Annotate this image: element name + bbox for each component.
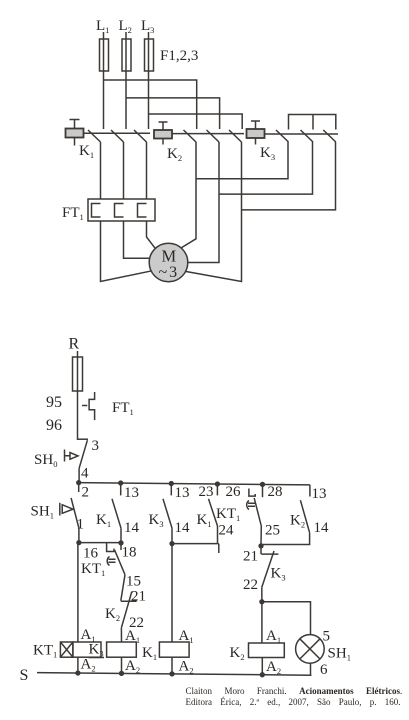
KT1 coil X diagonals: [60, 642, 73, 657]
control bus: [79, 483, 310, 485]
node dot 25 junction: [259, 544, 263, 548]
wire FT1 out1 to motor: [101, 221, 153, 282]
node dot K3 coil rail: [120, 672, 124, 676]
K2 linkage line: [172, 133, 244, 135]
svg-text:96: 96: [46, 417, 62, 434]
wire L1 drop: [103, 32, 105, 129]
SH1 actuator bar: [59, 503, 61, 516]
fuse F2: [122, 39, 131, 71]
svg-text:13: 13: [175, 485, 190, 501]
wire K1 pole3 out: [146, 142, 148, 200]
svg-text:A1: A1: [266, 628, 281, 645]
K3 coil label underline: [89, 657, 105, 659]
SH0 actuator arrow: [65, 453, 79, 460]
K1 contact pole1 blade: [88, 130, 101, 142]
K3 NC blade: [262, 551, 274, 587]
K2 coil box: [249, 643, 285, 658]
node dot K2 rail: [260, 673, 264, 677]
fuse F1: [100, 39, 109, 71]
FT1 NC contact squiggle: [89, 392, 95, 420]
svg-text:25: 25: [265, 523, 280, 539]
wire crossover H1 to K3 pole1: [196, 142, 288, 179]
wire crossover H3 to K3 pole3: [242, 142, 336, 210]
contactor K3 coil box: [247, 129, 265, 138]
K1 aux 23-24 blade: [209, 499, 218, 526]
K1 aux 23-24 stub: [216, 484, 218, 495]
wire FT1 out2 to motor: [124, 221, 154, 258]
bottom rail S: [37, 673, 311, 676]
svg-text:A2: A2: [125, 658, 140, 675]
svg-text:14: 14: [175, 520, 191, 536]
K1 aux 13-14 stub: [120, 483, 122, 495]
node dot SH1-K1aux left: [77, 541, 81, 545]
svg-text:15: 15: [126, 574, 141, 590]
K3 aux 13-14 stub: [170, 484, 172, 496]
node dot lamp junction: [260, 600, 264, 604]
svg-text:K2: K2: [105, 606, 120, 623]
svg-text:22: 22: [243, 577, 258, 593]
K3 contact pole1 blade: [276, 130, 289, 142]
KT1 coil X box: [60, 642, 73, 657]
K2 aux 13-14 drop: [309, 485, 311, 497]
svg-text:M: M: [162, 247, 177, 266]
wire junction to K2 coil: [261, 602, 263, 643]
svg-text:A1: A1: [81, 627, 96, 644]
fuse R: [73, 357, 83, 391]
wire L2 drop: [125, 32, 127, 129]
FT1 actuator dash: [82, 405, 87, 407]
KT1 coil box: [73, 642, 101, 657]
svg-text:28: 28: [268, 484, 283, 500]
thermal relay FT1 box: [88, 199, 155, 221]
K1 coil box: [159, 642, 189, 657]
svg-text:16: 16: [83, 546, 99, 562]
wire left drop to KT1 coil: [77, 543, 79, 642]
wire K2 pole3 out under motor: [181, 142, 242, 282]
wire FT1 out3 to motor: [147, 221, 158, 251]
SH1 stub: [78, 483, 80, 492]
svg-text:Claiton Moro Franchi. Acioname: Claiton Moro Franchi. Acionamentos Elétr…: [186, 686, 403, 696]
svg-text:KT1: KT1: [33, 643, 57, 660]
contactor K1 coil box: [66, 129, 84, 138]
K3 linkage line: [265, 133, 339, 135]
wire KT1 coil to rail: [77, 657, 79, 673]
K1 aux 13-14 blade: [112, 499, 121, 528]
svg-text:14: 14: [124, 520, 140, 536]
svg-text:R: R: [69, 336, 80, 353]
node dot B4: [216, 482, 220, 486]
node dot K1 rail: [170, 672, 174, 676]
K2 plunger: [159, 122, 168, 145]
svg-text:4: 4: [81, 466, 89, 482]
KT1 25 delay symbol: [247, 501, 255, 510]
wire K1 aux down: [120, 528, 122, 543]
svg-text:21: 21: [131, 589, 146, 605]
svg-text:K1: K1: [79, 143, 94, 160]
pushbutton SH1 blade: [71, 498, 79, 528]
KT1 timed blade: [115, 550, 125, 575]
svg-text:L2: L2: [119, 18, 132, 35]
SH1 actuator arrow: [62, 505, 73, 514]
svg-text:K2: K2: [290, 513, 305, 530]
FT1 heater element 3: [138, 204, 147, 218]
K2 aux 13-14 blade: [300, 500, 309, 532]
K3 aux 13-14 blade: [163, 499, 172, 528]
svg-text:23: 23: [199, 484, 214, 500]
svg-text:A2: A2: [179, 659, 194, 676]
svg-text:SH1: SH1: [31, 504, 54, 521]
FT1 heater element 1: [92, 204, 101, 218]
wire K3 coil to rail: [121, 657, 123, 673]
svg-text:26: 26: [226, 484, 242, 500]
svg-text:K2: K2: [230, 645, 245, 662]
svg-text:KT1: KT1: [216, 506, 240, 523]
svg-text:3: 3: [92, 438, 100, 454]
wire crossover H2 to K3 pole2: [219, 142, 313, 194]
wire K1 aux2 down: [218, 526, 219, 553]
K2 NC crossbar: [121, 600, 137, 602]
svg-text:A1: A1: [179, 628, 194, 645]
node dot B2: [119, 481, 123, 485]
wire 25 node to K3NC: [260, 546, 262, 554]
svg-text:K1: K1: [96, 512, 111, 529]
svg-text:FT1: FT1: [112, 400, 134, 417]
wire K2 coil to rail: [261, 658, 263, 675]
node 3 crossbar: [78, 438, 89, 440]
svg-text:L1: L1: [96, 18, 109, 35]
wire branch phase3 to K2: [149, 114, 243, 129]
wire connector B4 to B3: [172, 543, 219, 545]
wire K3NC down: [261, 587, 263, 602]
wire K2NC to K3 coil: [120, 628, 122, 642]
contactor K2 coil box: [154, 130, 172, 139]
svg-text:13: 13: [124, 485, 139, 501]
svg-text:2: 2: [82, 485, 90, 501]
wire K1 pole1 out: [100, 142, 102, 200]
wire branch phase1 to K2: [104, 80, 197, 129]
wire branch phase2 to K2: [126, 98, 220, 129]
svg-text:K1: K1: [142, 645, 157, 662]
wire K3 aux down: [171, 528, 173, 642]
node dot B5: [261, 483, 265, 487]
FT1 heater element 2: [115, 204, 124, 218]
svg-text:FT1: FT1: [62, 205, 84, 222]
KT1 25 hook 26: [249, 489, 255, 497]
K1 plunger top: [70, 120, 80, 129]
wire 25 down: [260, 526, 262, 546]
svg-text:13: 13: [312, 486, 327, 502]
svg-text:F1,2,3: F1,2,3: [160, 48, 198, 64]
K1 contact pole2 blade: [111, 130, 124, 142]
svg-text:Editora Érica, 2.ª ed., 2007,: Editora Érica, 2.ª ed., 2007, São Paulo,…: [186, 697, 401, 707]
wire junction to lamp: [262, 602, 311, 635]
svg-text:14: 14: [314, 520, 330, 536]
wire KT1 blade to K2NC: [121, 575, 125, 601]
svg-text:18: 18: [122, 545, 137, 561]
svg-text:95: 95: [46, 394, 62, 411]
svg-text:KT1: KT1: [81, 561, 105, 578]
K2 contact pole1 blade: [184, 130, 197, 142]
K2 contact pole2 blade: [207, 130, 220, 142]
wire SH0 to bus: [78, 468, 80, 483]
wire K2 pole2 out to motor: [184, 142, 219, 263]
wire 18 stub: [120, 543, 122, 550]
node dot SH1-K1aux right: [119, 541, 123, 545]
svg-text:K3: K3: [260, 145, 275, 162]
KT1 contact delay symbol: [107, 557, 115, 566]
wire K2 pole1 out to motor: [179, 142, 197, 250]
K3 star bus: [289, 115, 336, 130]
svg-text:5: 5: [323, 629, 331, 645]
svg-text:A2: A2: [81, 657, 96, 674]
wire lamp to rail: [310, 663, 312, 675]
svg-text:~3: ~3: [159, 264, 180, 281]
fuse F3: [145, 39, 154, 71]
K3 coil box: [107, 642, 137, 657]
KT1 contact hook 16: [107, 543, 114, 552]
svg-text:24: 24: [219, 523, 235, 539]
svg-text:K3: K3: [271, 566, 286, 583]
svg-text:S: S: [20, 667, 29, 684]
lamp X: [300, 639, 320, 659]
wire L3 drop: [148, 32, 150, 129]
node dot B3-B4 join: [170, 542, 174, 546]
lamp SH1 circle: [296, 635, 325, 664]
svg-text:K2: K2: [167, 146, 182, 163]
svg-text:SH0: SH0: [34, 452, 57, 469]
svg-text:6: 6: [320, 662, 328, 678]
K3 plunger: [251, 121, 260, 145]
svg-text:K1: K1: [197, 512, 212, 529]
svg-text:K3: K3: [149, 512, 164, 529]
wire K2 aux bottom: [261, 533, 310, 545]
K1 plunger bottom: [74, 138, 76, 146]
wire connector B1-B2: [79, 542, 121, 544]
wire control stem top: [77, 351, 79, 440]
svg-text:L3: L3: [141, 18, 154, 35]
K1 contact pole3 blade: [134, 130, 147, 142]
SH0 actuator bar: [64, 450, 66, 462]
K3 contact pole2 blade: [301, 130, 314, 142]
wire K1 coil to rail: [171, 657, 173, 674]
pushbutton SH0 blade: [79, 440, 87, 468]
K1 linkage line: [84, 132, 151, 134]
K3 NC crossbar: [261, 553, 278, 555]
node dot B3: [169, 482, 173, 486]
node dot KT1 rail: [76, 671, 80, 675]
wire SH1 down: [78, 528, 80, 542]
svg-text:A2: A2: [266, 659, 281, 676]
svg-text:21: 21: [243, 549, 258, 565]
svg-text:SH1: SH1: [328, 646, 351, 663]
motor M 3~: [149, 243, 188, 282]
svg-text:1: 1: [77, 517, 85, 533]
K2 contact pole3 blade: [229, 130, 242, 142]
K3 contact pole3 blade: [323, 130, 336, 142]
wire K1 pole2 out: [123, 142, 125, 200]
KT1 timed blade 25: [254, 498, 261, 526]
KT1 timed 25-28 stub: [262, 484, 264, 497]
node dot B1: [77, 481, 81, 485]
K2 NC blade: [121, 592, 131, 628]
